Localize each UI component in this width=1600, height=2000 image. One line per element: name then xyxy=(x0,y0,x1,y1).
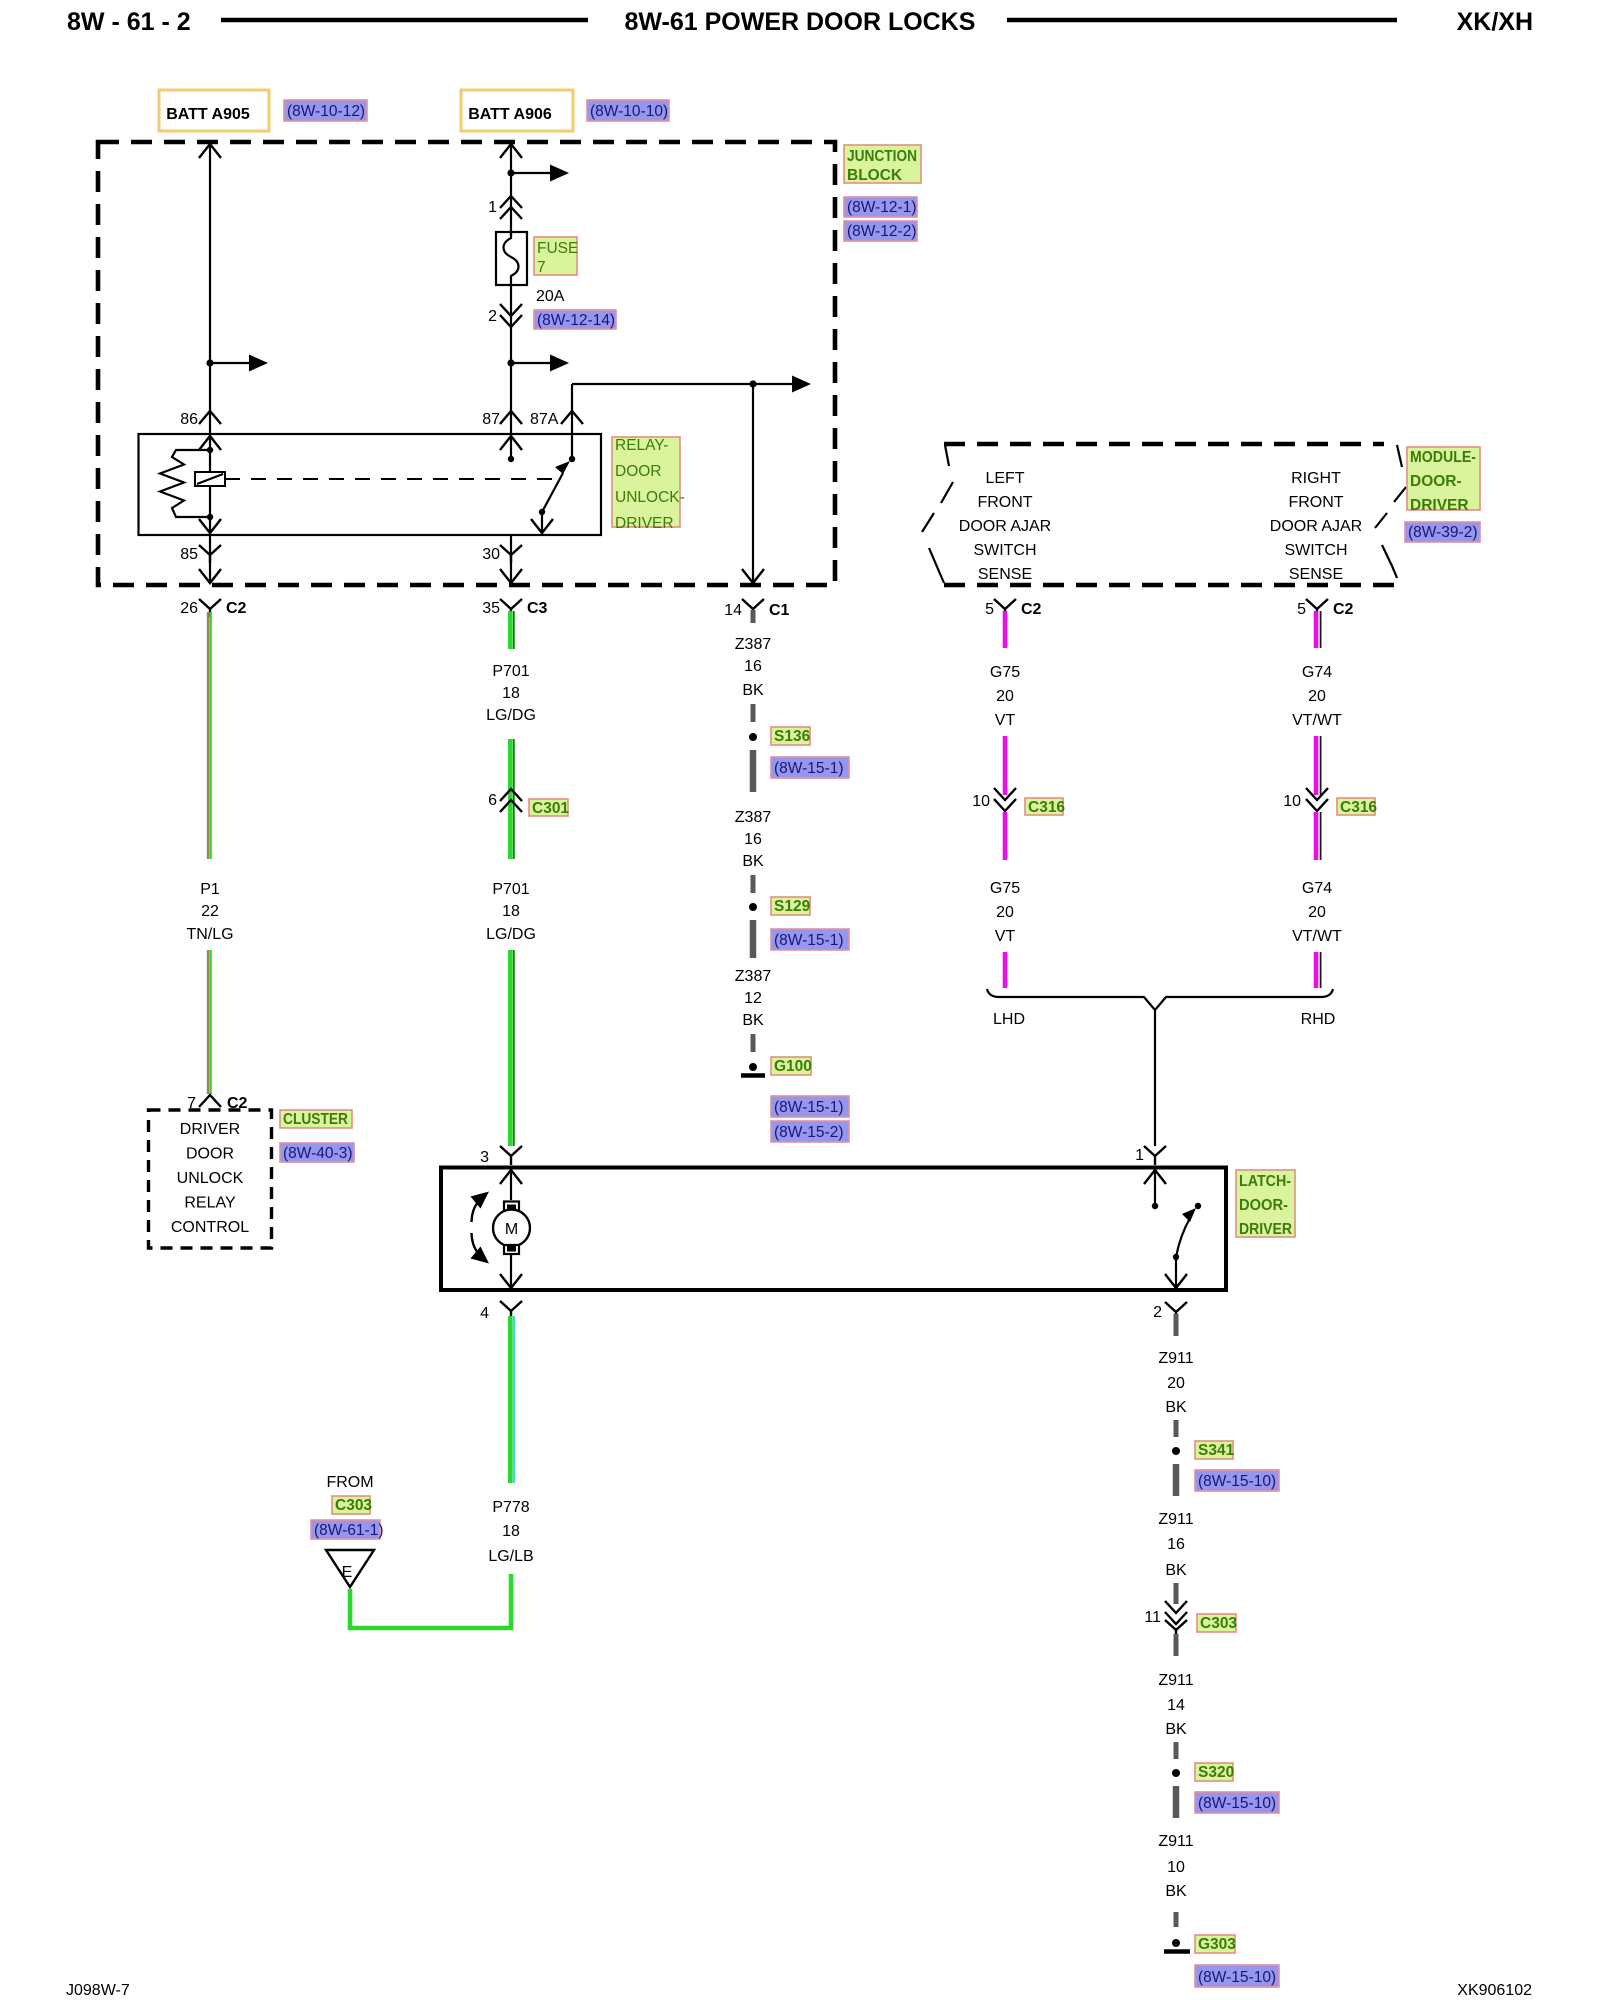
svg-text:86: 86 xyxy=(180,411,198,428)
svg-text:LG/DG: LG/DG xyxy=(486,926,536,943)
wire Z911 20 BK segment xyxy=(1174,1314,1179,1336)
module-door-driver dashed box top edge xyxy=(944,442,1384,447)
svg-text:30: 30 xyxy=(482,546,500,563)
svg-text:(8W-40-3): (8W-40-3) xyxy=(283,1145,352,1162)
relay coil element xyxy=(195,472,225,486)
relay actuation dashed link xyxy=(225,478,552,480)
svg-text:XK/XH: XK/XH xyxy=(1457,8,1533,36)
wire label Z387 16 BK xyxy=(735,636,772,699)
reference label (8W-15-10) xyxy=(1195,1470,1279,1491)
latch pin 2 xyxy=(1153,1302,1187,1321)
header rule left xyxy=(221,18,588,23)
wire G75 segment 4 xyxy=(1003,952,1008,988)
reference label (8W-15-10) third xyxy=(1195,1965,1279,1987)
reference label (8W-15-1) third xyxy=(771,1096,849,1117)
svg-text:18: 18 xyxy=(502,685,520,702)
wire Z387 segment below S136 xyxy=(750,750,757,792)
wire label Z911 16 BK xyxy=(1158,1511,1193,1579)
svg-text:G100: G100 xyxy=(774,1058,812,1075)
wire from 87A node down to connector C1 xyxy=(742,384,764,583)
junction block label xyxy=(844,145,921,183)
wire P1 22 TN/LG lower xyxy=(208,950,211,1094)
relay coil wire with arrow xyxy=(199,436,221,533)
reference label (8W-15-2) xyxy=(771,1121,849,1142)
svg-text:Z911: Z911 xyxy=(1158,1833,1193,1850)
module-door-driver dashed box bottom edge xyxy=(944,583,1397,588)
svg-text:C1: C1 xyxy=(769,602,790,619)
wire from E to P778 xyxy=(350,1574,511,1628)
wire Z387 short segment 3 xyxy=(751,1034,756,1052)
svg-text:20A: 20A xyxy=(536,288,565,305)
svg-text:JUNCTION: JUNCTION xyxy=(847,148,917,165)
wire BATT A905 to relay pin 86 xyxy=(199,144,221,434)
fuse F7 xyxy=(496,232,527,285)
reference label (8W-61-1) xyxy=(311,1520,380,1539)
junction node above pin 87 xyxy=(507,359,514,366)
wire Z911 short segment 3 xyxy=(1174,1912,1179,1927)
latch motor feed wire top xyxy=(500,1170,522,1200)
splice S129 xyxy=(749,903,757,911)
svg-text:LG/LB: LG/LB xyxy=(488,1548,533,1565)
latch switch pin 1 wire xyxy=(1144,1170,1166,1209)
svg-text:BK: BK xyxy=(1165,1883,1187,1900)
svg-text:M: M xyxy=(505,1221,518,1238)
svg-text:87: 87 xyxy=(482,411,500,428)
svg-text:LEFT: LEFT xyxy=(985,470,1024,487)
svg-text:Z387: Z387 xyxy=(735,636,772,653)
svg-text:DOOR AJAR: DOOR AJAR xyxy=(1270,518,1362,535)
relay pin 87 inner contact xyxy=(500,436,522,462)
svg-text:P1: P1 xyxy=(200,881,220,898)
svg-text:22: 22 xyxy=(201,903,219,920)
svg-text:1: 1 xyxy=(1135,1147,1144,1164)
svg-text:16: 16 xyxy=(1167,1536,1185,1553)
wire BATT A906 to fuse xyxy=(500,144,522,236)
wire Z387 16 BK segment 1 xyxy=(751,610,756,623)
svg-text:RHD: RHD xyxy=(1301,1011,1336,1028)
svg-text:(8W-12-1): (8W-12-1) xyxy=(847,199,916,216)
svg-text:S129: S129 xyxy=(774,898,811,915)
wire label G74 20 VT/WT second xyxy=(1292,880,1342,945)
svg-text:20: 20 xyxy=(1167,1375,1185,1392)
relay pin 87 xyxy=(482,411,522,428)
svg-text:DOOR AJAR: DOOR AJAR xyxy=(959,518,1051,535)
svg-text:BATT A906: BATT A906 xyxy=(468,106,552,123)
module text right front door ajar switch sense xyxy=(1270,470,1362,583)
wire label Z911 20 BK xyxy=(1158,1350,1193,1416)
wire Z911 below C303 xyxy=(1174,1634,1179,1656)
wire label G74 20 VT/WT xyxy=(1292,664,1342,729)
svg-text:RIGHT: RIGHT xyxy=(1291,470,1341,487)
module right pin 5 C2 xyxy=(1297,599,1353,618)
reference label (8W-39-2) xyxy=(1405,522,1480,542)
svg-text:Z387: Z387 xyxy=(735,809,772,826)
latch pin 3 xyxy=(480,1146,522,1166)
LHD/RHD selection brace xyxy=(987,989,1333,1010)
reference label (8W-15-1) second xyxy=(771,929,849,950)
svg-text:LHD: LHD xyxy=(993,1011,1025,1028)
svg-text:(8W-10-12): (8W-10-12) xyxy=(287,103,365,120)
svg-text:5: 5 xyxy=(1297,601,1306,618)
svg-text:C2: C2 xyxy=(1333,601,1354,618)
reference label (8W-12-14) xyxy=(534,310,616,329)
wire Z911 below S320 xyxy=(1173,1786,1180,1818)
svg-text:Z387: Z387 xyxy=(735,968,772,985)
svg-text:(8W-15-1): (8W-15-1) xyxy=(774,760,843,777)
svg-text:14: 14 xyxy=(724,602,742,619)
svg-text:20: 20 xyxy=(1308,904,1326,921)
coil wire nodes xyxy=(207,447,213,453)
reference label (8W-40-3) xyxy=(280,1143,354,1162)
junction node on 87A line xyxy=(749,380,756,387)
svg-text:FROM: FROM xyxy=(326,1474,373,1491)
cluster label xyxy=(280,1110,352,1128)
svg-text:87A: 87A xyxy=(530,411,559,428)
relay pin 85 xyxy=(180,535,221,583)
wire G74 segment 3 xyxy=(1316,812,1321,860)
svg-text:SENSE: SENSE xyxy=(978,566,1032,583)
wire G74 20 VT/WT segment 1 xyxy=(1316,611,1321,648)
relay label RELAY-DOOR UNLOCK-DRIVER xyxy=(612,437,680,527)
svg-text:C303: C303 xyxy=(1200,1615,1237,1632)
svg-text:BK: BK xyxy=(1165,1562,1187,1579)
svg-text:DRIVER: DRIVER xyxy=(1410,497,1469,514)
svg-text:SENSE: SENSE xyxy=(1289,566,1343,583)
wire Z911 short segment xyxy=(1174,1420,1179,1437)
in-line connector 11 C303 xyxy=(1144,1601,1187,1638)
wire label P701 18 LG/DG xyxy=(486,663,536,724)
svg-text:4: 4 xyxy=(480,1305,489,1322)
connector label C301 xyxy=(529,799,568,816)
svg-text:G75: G75 xyxy=(990,880,1020,897)
svg-text:5: 5 xyxy=(985,601,994,618)
battery feed box BATT A906 xyxy=(461,90,573,131)
branch arrow right from A905 wire xyxy=(210,355,268,372)
wire Z387 short segment 2 xyxy=(751,875,756,893)
wire G75 segment 3 xyxy=(1003,812,1008,860)
svg-text:LG/DG: LG/DG xyxy=(486,707,536,724)
svg-text:20: 20 xyxy=(996,904,1014,921)
svg-text:26: 26 xyxy=(180,600,198,617)
wire Z911 below S341 xyxy=(1173,1464,1180,1496)
connector label C303 from xyxy=(332,1496,370,1514)
svg-text:P701: P701 xyxy=(492,663,529,680)
svg-text:C301: C301 xyxy=(532,800,569,817)
svg-text:DOOR-: DOOR- xyxy=(1410,473,1462,490)
svg-text:3: 3 xyxy=(480,1149,489,1166)
wire Z911 short segment 2 xyxy=(1174,1742,1179,1759)
svg-text:C316: C316 xyxy=(1340,799,1377,816)
battery feed box BATT A905 xyxy=(159,90,269,131)
svg-text:G74: G74 xyxy=(1302,664,1332,681)
svg-text:P701: P701 xyxy=(492,881,529,898)
wire label Z387 12 BK xyxy=(735,968,772,1029)
wire label P1 22 TN/LG xyxy=(186,881,233,943)
relay coil resistor xyxy=(160,450,210,517)
splice S320 xyxy=(1172,1769,1180,1777)
relay pin 87A xyxy=(530,411,583,428)
wire label Z387 16 BK second xyxy=(735,809,772,870)
svg-text:C3: C3 xyxy=(527,600,548,617)
svg-text:TN/LG: TN/LG xyxy=(186,926,233,943)
svg-text:P778: P778 xyxy=(492,1499,529,1516)
connector pin 26 C2 xyxy=(180,599,246,617)
svg-text:MODULE-: MODULE- xyxy=(1410,449,1476,466)
splice S136 xyxy=(749,733,757,741)
wire label P778 18 LG/LB xyxy=(488,1499,533,1565)
latch label LATCH-DOOR-DRIVER xyxy=(1236,1170,1295,1237)
svg-text:(8W-10-10): (8W-10-10) xyxy=(590,103,668,120)
svg-text:FRONT: FRONT xyxy=(977,494,1032,511)
wire P701 segment 2 xyxy=(510,739,514,859)
svg-text:Z911: Z911 xyxy=(1158,1672,1193,1689)
reference label (8W-15-1) xyxy=(771,757,849,778)
svg-text:6: 6 xyxy=(488,792,497,809)
svg-text:G303: G303 xyxy=(1198,1936,1236,1953)
ground G100 xyxy=(741,1063,765,1076)
branch arrow right from 87A line xyxy=(753,376,811,393)
svg-text:2: 2 xyxy=(1153,1304,1162,1321)
wire from 87A up and right to C1 feed xyxy=(572,384,753,434)
svg-text:Z911: Z911 xyxy=(1158,1511,1193,1528)
svg-text:VT: VT xyxy=(995,712,1016,729)
connector pin 14 C1 xyxy=(724,599,789,619)
svg-text:7: 7 xyxy=(537,259,546,276)
wire Z387 segment below S129 xyxy=(750,920,757,958)
in-line connector 10 C316 left xyxy=(972,788,1016,811)
wire label Z911 14 BK xyxy=(1158,1672,1193,1738)
branch arrow right at top of A906 wire xyxy=(511,165,569,182)
header rule right xyxy=(1007,18,1397,23)
svg-text:DOOR: DOOR xyxy=(186,1146,234,1163)
svg-text:FRONT: FRONT xyxy=(1288,494,1343,511)
svg-text:11: 11 xyxy=(1144,1609,1161,1626)
latch pin 4 xyxy=(480,1301,522,1322)
svg-text:RELAY: RELAY xyxy=(184,1195,236,1212)
latch pin 1 xyxy=(1135,1146,1166,1165)
in-line connector 10 C316 right xyxy=(1283,788,1328,811)
module left pin 5 C2 xyxy=(985,599,1041,618)
relay switch arm xyxy=(531,461,570,533)
wire label G75 20 VT xyxy=(990,664,1020,729)
wire P701 segment 3 to latch pin 3 xyxy=(510,950,514,1146)
svg-text:UNLOCK-: UNLOCK- xyxy=(615,489,685,506)
svg-text:(8W-15-1): (8W-15-1) xyxy=(774,1099,843,1116)
reference label (8W-10-10) xyxy=(587,100,669,121)
svg-text:1: 1 xyxy=(488,199,497,216)
module torn right edge xyxy=(1375,445,1406,578)
relay pin 87A inner contact xyxy=(569,434,575,462)
wire P778 18 LG/LB upper xyxy=(510,1316,514,1483)
svg-text:20: 20 xyxy=(996,688,1014,705)
svg-text:G74: G74 xyxy=(1302,880,1332,897)
svg-text:(8W-61-1): (8W-61-1) xyxy=(314,1522,383,1539)
svg-text:DRIVER: DRIVER xyxy=(615,515,674,532)
wire label P701 18 LG/DG second xyxy=(486,881,536,943)
reference label (8W-10-12) xyxy=(284,100,367,121)
svg-text:UNLOCK: UNLOCK xyxy=(177,1170,244,1187)
svg-text:BK: BK xyxy=(742,1012,764,1029)
svg-text:S320: S320 xyxy=(1198,1764,1234,1781)
svg-text:(8W-12-2): (8W-12-2) xyxy=(847,223,916,240)
splice S341 xyxy=(1172,1447,1180,1455)
ground G303 xyxy=(1164,1939,1190,1952)
reference label (8W-15-10) second xyxy=(1195,1792,1279,1813)
svg-text:10: 10 xyxy=(1283,793,1301,810)
relay R-door-unlock-driver box xyxy=(139,434,602,535)
svg-text:G75: G75 xyxy=(990,664,1020,681)
latch motor wire bottom xyxy=(500,1254,522,1288)
svg-text:8W - 61 - 2: 8W - 61 - 2 xyxy=(67,8,191,36)
svg-text:18: 18 xyxy=(502,903,520,920)
wire label G75 20 VT second xyxy=(990,880,1020,945)
wire G75 20 VT segment 1 xyxy=(1003,611,1008,648)
svg-text:BK: BK xyxy=(742,682,764,699)
svg-text:XK906102: XK906102 xyxy=(1457,1982,1532,1999)
svg-text:12: 12 xyxy=(744,990,762,1007)
junction node on A906 wire xyxy=(507,169,514,176)
relay pin 30 xyxy=(482,535,522,583)
svg-text:85: 85 xyxy=(180,546,198,563)
svg-text:14: 14 xyxy=(1167,1697,1185,1714)
svg-text:BK: BK xyxy=(742,853,764,870)
svg-text:35: 35 xyxy=(482,600,500,617)
wire G75 segment 2 xyxy=(1003,736,1008,795)
wire label Z911 10 BK xyxy=(1158,1833,1193,1900)
svg-text:J098W-7: J098W-7 xyxy=(66,1982,130,1999)
module text left front door ajar switch sense xyxy=(959,470,1051,583)
in-line connector pin 1 xyxy=(488,196,522,219)
svg-text:S341: S341 xyxy=(1198,1442,1235,1459)
svg-text:BLOCK: BLOCK xyxy=(847,167,903,184)
svg-text:20: 20 xyxy=(1308,688,1326,705)
latch switch arm xyxy=(1165,1208,1196,1288)
cluster dashed box xyxy=(149,1110,272,1248)
cluster box text xyxy=(171,1121,249,1236)
module torn left edge xyxy=(922,445,953,583)
svg-text:(8W-15-10): (8W-15-10) xyxy=(1198,1473,1276,1490)
latch-door-driver box xyxy=(441,1168,1226,1291)
relay pin 86 xyxy=(180,411,221,428)
junction block dashed boundary xyxy=(98,142,835,585)
fuse label FUSE 7 xyxy=(534,237,577,275)
svg-text:10: 10 xyxy=(1167,1859,1185,1876)
svg-text:RELAY-: RELAY- xyxy=(615,437,668,454)
latch switch fixed contact xyxy=(1195,1203,1201,1209)
svg-text:VT/WT: VT/WT xyxy=(1292,928,1342,945)
svg-text:10: 10 xyxy=(972,793,990,810)
svg-text:LATCH-: LATCH- xyxy=(1239,1173,1291,1190)
svg-text:E: E xyxy=(342,1564,353,1581)
svg-text:8W-61 POWER DOOR LOCKS: 8W-61 POWER DOOR LOCKS xyxy=(625,8,976,36)
svg-text:C2: C2 xyxy=(1021,601,1042,618)
wire P1 22 TN/LG upper xyxy=(208,612,211,859)
wire G74 segment 2 xyxy=(1316,736,1321,795)
svg-text:C303: C303 xyxy=(335,1497,372,1514)
svg-text:SWITCH: SWITCH xyxy=(973,542,1036,559)
wire G74 segment 4 xyxy=(1316,952,1321,988)
svg-text:(8W-15-10): (8W-15-10) xyxy=(1198,1795,1276,1812)
connector label C303 xyxy=(1197,1614,1236,1632)
svg-text:(8W-15-10): (8W-15-10) xyxy=(1198,1969,1276,1986)
svg-text:BATT A905: BATT A905 xyxy=(166,106,250,123)
svg-text:S136: S136 xyxy=(774,728,811,745)
motor rotation arrows xyxy=(471,1192,490,1264)
motor M xyxy=(493,1202,530,1255)
svg-text:DOOR-: DOOR- xyxy=(1239,1197,1288,1214)
svg-text:BK: BK xyxy=(1165,1721,1187,1738)
svg-text:CLUSTER: CLUSTER xyxy=(283,1111,348,1128)
svg-text:VT: VT xyxy=(995,928,1016,945)
svg-text:16: 16 xyxy=(744,658,762,675)
connector pin 35 C3 xyxy=(482,599,547,617)
svg-text:DRIVER: DRIVER xyxy=(1239,1221,1292,1238)
off-page connector E xyxy=(326,1550,374,1587)
svg-text:C316: C316 xyxy=(1028,799,1065,816)
reference label (8W-12-2) xyxy=(844,221,917,241)
junction node on A905 wire xyxy=(206,359,213,366)
svg-text:FUSE: FUSE xyxy=(537,240,578,257)
wire P701 18 LG/DG segment 1 xyxy=(510,611,514,649)
svg-text:C2: C2 xyxy=(226,600,247,617)
svg-text:VT/WT: VT/WT xyxy=(1292,712,1342,729)
connector label C316 right xyxy=(1337,798,1375,815)
in-line connector pin 2 xyxy=(488,285,522,434)
svg-text:(8W-39-2): (8W-39-2) xyxy=(1408,524,1477,541)
svg-text:16: 16 xyxy=(744,831,762,848)
svg-text:DRIVER: DRIVER xyxy=(180,1121,240,1138)
svg-text:CONTROL: CONTROL xyxy=(171,1219,249,1236)
cluster pin 7 C2 xyxy=(187,1095,247,1112)
branch arrow right above pin 87 xyxy=(511,355,569,372)
module label MODULE-DOOR-DRIVER xyxy=(1407,447,1480,510)
wire brace to latch pin 1 xyxy=(1154,1010,1156,1146)
connector label C316 left xyxy=(1025,798,1063,815)
svg-text:2: 2 xyxy=(488,308,497,325)
svg-text:BK: BK xyxy=(1165,1399,1187,1416)
svg-text:(8W-15-2): (8W-15-2) xyxy=(774,1124,843,1141)
wire Z911 segment to C303 xyxy=(1174,1583,1179,1604)
svg-text:(8W-15-1): (8W-15-1) xyxy=(774,932,843,949)
in-line connector pin 6 C301 xyxy=(488,789,522,812)
svg-text:18: 18 xyxy=(502,1523,520,1540)
svg-text:(8W-12-14): (8W-12-14) xyxy=(537,312,615,329)
svg-text:DOOR: DOOR xyxy=(615,463,662,480)
reference label (8W-12-1) xyxy=(844,197,917,217)
svg-text:SWITCH: SWITCH xyxy=(1284,542,1347,559)
wire Z387 short segment xyxy=(751,704,756,722)
svg-text:Z911: Z911 xyxy=(1158,1350,1193,1367)
